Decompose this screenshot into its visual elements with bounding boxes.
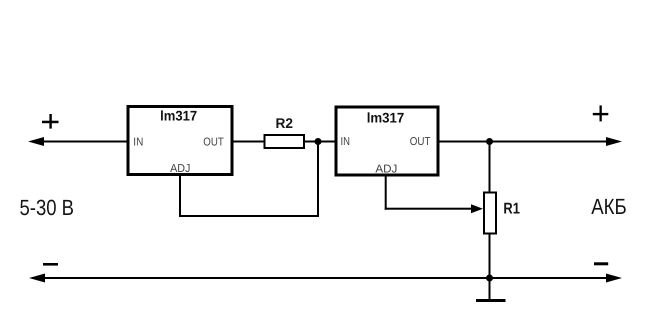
node -: right minus sign (594, 262, 608, 265)
junction node A (between R2 and U2 IN) (315, 138, 322, 145)
wire: U1 ADJ feedback horizontal run (179, 215, 319, 217)
label: АКБ (battery) (591, 194, 627, 219)
svg-text:ADJ: ADJ (170, 163, 190, 175)
ground (bar) (476, 299, 506, 302)
wire: U1 OUT to R2 (232, 141, 265, 143)
label: R2 (276, 115, 294, 131)
svg-text:OUT: OUT (410, 136, 431, 148)
svg-text:5-30 В: 5-30 В (20, 195, 75, 220)
arrowhead: negative rail left, pointing left (29, 274, 45, 283)
pin label: U2 OUT (410, 136, 431, 148)
arrowhead: positive output, pointing right (606, 137, 622, 146)
node +: input polarity plus sign (42, 114, 59, 129)
resistor R1 (body, adjustable) (484, 193, 496, 234)
arrowhead: positive input, pointing left (28, 137, 44, 146)
svg-text:IN: IN (341, 136, 351, 148)
svg-text:OUT: OUT (203, 136, 224, 148)
junction node C (negative rail at ground) (486, 275, 493, 282)
pin label: U1 ADJ (170, 163, 190, 175)
svg-text:lm317: lm317 (160, 108, 197, 124)
junction node B (output rail above R1) (486, 138, 493, 145)
wire: feedback vertical up to node A (317, 141, 319, 217)
resistor R2 (body) (265, 135, 305, 148)
ground (stem) (489, 278, 491, 300)
node +: output polarity plus sign (593, 105, 609, 121)
node -: left minus sign (43, 263, 58, 266)
regulator U1 lm317 (body) (128, 107, 232, 175)
value label: lm317 (U1) (160, 108, 197, 124)
value label: lm317 (U2) (367, 110, 405, 126)
wire: R2 to U2 IN (304, 141, 336, 143)
svg-text:ADJ: ADJ (375, 164, 397, 176)
wire: U2 OUT to output arrow (438, 141, 609, 143)
pin label: U1 IN (133, 137, 143, 149)
label: R1 (503, 201, 520, 218)
pin label: U2 ADJ (375, 164, 397, 176)
wire: U2 ADJ stub down (385, 176, 387, 210)
pin label: U2 IN (341, 136, 351, 148)
arrowhead: wiper arrow into R1 (471, 204, 483, 213)
svg-text:R1: R1 (503, 201, 520, 218)
wire: U1 ADJ stub down (179, 175, 181, 217)
svg-text:lm317: lm317 (367, 110, 405, 126)
regulator U2 lm317 (body) (336, 107, 438, 175)
pin label: U1 OUT (203, 136, 224, 148)
wire: positive input rail (left segment) (40, 141, 129, 143)
label: 5-30 В input voltage (20, 195, 75, 220)
wire: U2 ADJ horizontal run to R1 wiper (385, 208, 472, 210)
arrowhead: negative rail right, pointing right (606, 274, 622, 283)
wire: R1 bottom down to negative rail (489, 234, 491, 279)
svg-text:IN: IN (133, 137, 143, 149)
wire: negative rail (41, 277, 609, 279)
svg-text:R2: R2 (276, 115, 294, 131)
svg-text:АКБ: АКБ (591, 194, 627, 219)
wire: node B down to R1 top (489, 141, 491, 193)
